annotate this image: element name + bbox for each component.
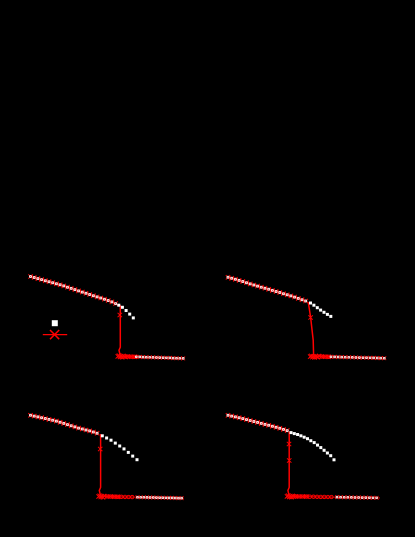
TL lower-branch red x markers	[125, 354, 137, 359]
TL lower-branch markers (red x + white circles)	[134, 355, 185, 360]
TR lower-branch red line	[314, 356, 385, 358]
TL drop red line	[119, 305, 120, 355]
BR lower-branch red line	[289, 496, 380, 498]
TL lower-branch red circle markers	[126, 355, 137, 359]
BL landing cluster of red x markers	[96, 494, 106, 500]
TL white square tail (upper branch continuation)	[117, 304, 135, 320]
TL landing cluster of red x markers	[116, 354, 128, 360]
TR lower-branch red circle markers	[320, 355, 331, 359]
BR white square tail (upper branch continuation)	[290, 431, 336, 461]
BR landing cluster of red x markers	[285, 494, 296, 500]
BL lower-branch red line	[101, 496, 184, 498]
BL drop x markers	[98, 447, 102, 451]
legend white square marker	[52, 320, 58, 326]
BR lower-branch red circle markers	[294, 495, 333, 499]
TL upper-branch red line	[31, 277, 118, 305]
BR upper-branch red line	[228, 415, 288, 431]
TR white square tail (upper branch continuation)	[309, 302, 332, 318]
TR upper-branch red line	[228, 277, 308, 301]
BL drop red line	[99, 434, 100, 495]
BL lower-branch red circle markers	[105, 495, 134, 499]
BR lower-branch markers (red x + white circles)	[335, 495, 378, 499]
BL lower-branch red x markers	[105, 494, 120, 499]
TR drop red line	[308, 302, 313, 355]
BR drop red line	[288, 432, 289, 496]
TL upper-branch markers (red x + white circles)	[28, 274, 118, 306]
TR upper-branch markers (red x + white circles)	[226, 275, 308, 303]
TR lower-branch red x markers	[319, 354, 331, 359]
BR lower-branch red x markers	[293, 494, 308, 499]
BL upper-branch red line	[31, 415, 99, 433]
TL lower-branch red line	[120, 356, 183, 358]
BL upper-branch markers (red x + white circles)	[28, 413, 99, 435]
legend red line sample	[43, 334, 67, 336]
BL white square tail (upper branch continuation)	[101, 434, 139, 461]
TR drop x markers	[308, 315, 312, 319]
legend red x marker	[50, 330, 59, 339]
TR landing cluster of red x markers	[308, 354, 321, 360]
TL drop x markers	[118, 313, 122, 317]
BL lower-branch markers (red x + white circles)	[136, 495, 184, 500]
BR drop x markers	[287, 442, 292, 463]
BR upper-branch markers (red x + white circles)	[226, 413, 290, 433]
TR lower-branch markers (red x + white circles)	[329, 355, 386, 360]
